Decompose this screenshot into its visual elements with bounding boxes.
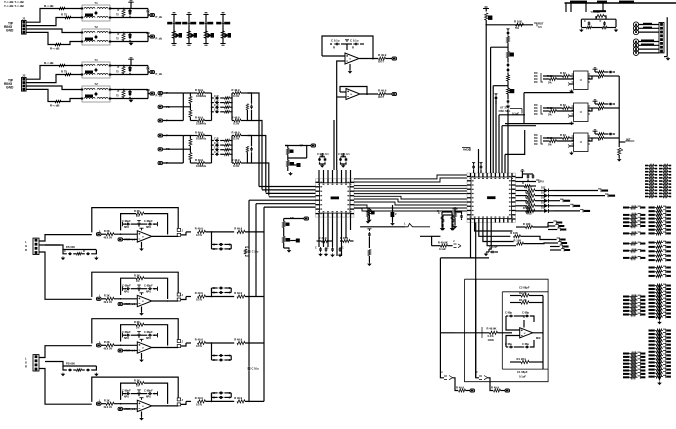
svg-text:R 49.9: R 49.9 <box>195 131 203 135</box>
svg-text:NPO: NPO <box>146 291 151 293</box>
termination row g1L9 <box>645 193 648 195</box>
wire <box>510 361 521 363</box>
capacitor CF4Ab <box>148 223 153 226</box>
termination row g6R9 <box>649 361 655 363</box>
termination row g4R1 <box>649 271 655 273</box>
svg-text:NPO: NPO <box>124 291 129 293</box>
op-amp U4C <box>137 342 152 353</box>
jumper JP3 <box>454 244 462 248</box>
ground <box>141 353 143 359</box>
wire <box>501 126 503 173</box>
capacitor CB9 <box>248 366 251 371</box>
diode D49 <box>371 211 375 214</box>
input resistor RI4B <box>106 297 114 300</box>
connector J5 <box>659 23 664 53</box>
power flag <box>137 285 141 289</box>
wire <box>354 187 467 189</box>
termination row g1L10 <box>645 196 648 198</box>
svg-text:C 68pF: C 68pF <box>122 330 131 334</box>
net TX1 out <box>148 9 150 16</box>
wire <box>516 190 528 192</box>
net AOUT1 <box>386 58 393 60</box>
wire <box>322 55 345 57</box>
termination row g3L2 <box>623 257 629 259</box>
svg-text:R 10K: R 10K <box>510 231 518 235</box>
svg-text:NPO: NPO <box>124 338 129 340</box>
svg-text:R 49.9: R 49.9 <box>232 116 240 120</box>
diode D48 <box>286 238 291 242</box>
termination row g1R1 <box>659 168 662 170</box>
capacitor CF4Cb <box>148 334 153 337</box>
svg-text:OUT: OUT <box>378 95 384 99</box>
termination row g2R4 <box>649 221 655 223</box>
power flag <box>593 68 598 69</box>
ground <box>485 253 487 254</box>
wire <box>255 204 257 297</box>
label pair 3 <box>199 22 204 25</box>
termination row g1R6 <box>659 183 662 185</box>
wire <box>163 136 184 150</box>
wire <box>516 200 528 202</box>
power flag <box>128 1 134 2</box>
wire <box>486 20 533 25</box>
svg-text:0.1uF: 0.1uF <box>519 375 526 379</box>
termination row g3L0 <box>623 243 629 245</box>
wire <box>101 298 106 300</box>
capacitor CR2 <box>250 147 253 152</box>
connector J4 <box>33 355 39 371</box>
wire <box>183 93 190 96</box>
termination row g2R0 <box>649 207 655 209</box>
power flag <box>341 154 345 155</box>
capacitor C82 <box>507 68 510 72</box>
wire <box>565 3 567 12</box>
ground <box>659 321 661 322</box>
power flag <box>137 220 141 224</box>
wire <box>188 15 190 44</box>
resistor R100 <box>521 294 529 297</box>
wire <box>354 202 467 205</box>
resistor R81 <box>516 23 524 26</box>
resistor R82 <box>507 37 510 43</box>
wire <box>639 52 659 54</box>
resistor RE3 <box>514 235 521 238</box>
resistor RB6 <box>563 137 570 140</box>
svg-text:R 49.9: R 49.9 <box>232 88 240 92</box>
wire <box>245 400 264 402</box>
termination row g6R7 <box>649 354 655 356</box>
svg-text:R 2K: R 2K <box>134 273 140 277</box>
resistor R11 <box>59 7 65 10</box>
wire <box>189 107 191 110</box>
capacitor CL24 <box>215 153 219 156</box>
wire <box>247 93 251 104</box>
connector J2 <box>22 78 27 92</box>
wire <box>570 3 572 12</box>
svg-text:R-< dB: R-< dB <box>50 47 60 51</box>
termination row g1L6 <box>645 183 648 185</box>
capacitor CT12 <box>129 35 132 40</box>
wire <box>506 346 508 348</box>
wire <box>588 107 598 109</box>
rc branch caps 4C <box>219 354 223 357</box>
wire <box>123 334 126 336</box>
wire <box>163 120 184 122</box>
svg-text:1%: 1% <box>136 281 139 283</box>
resistor R12 <box>55 43 61 46</box>
wire <box>588 137 598 139</box>
wire rail right <box>231 136 233 164</box>
net label REF4B <box>118 302 123 305</box>
termination row g2R3 <box>649 218 655 220</box>
resistor RS21 <box>198 134 205 137</box>
wire <box>432 235 441 237</box>
wire <box>350 170 352 179</box>
wire <box>152 405 178 407</box>
resistor R103 <box>521 360 529 363</box>
termination row g6L2 <box>623 359 629 361</box>
diode DD5 <box>544 209 549 213</box>
svg-text:R 49.9: R 49.9 <box>456 385 464 389</box>
resistor R105 <box>459 389 466 392</box>
svg-text:R 2K: R 2K <box>104 340 110 344</box>
power flag <box>593 100 598 101</box>
capacitor C80 <box>507 31 510 35</box>
termination row g5R1 <box>649 288 655 290</box>
wire <box>247 93 259 187</box>
wire <box>186 231 191 233</box>
resistor RC4 <box>221 31 224 38</box>
termination row g6R13 <box>649 376 655 378</box>
svg-text:P_db: P_db <box>156 72 163 76</box>
termination row g6R3 <box>649 340 655 342</box>
svg-text:R 49.9: R 49.9 <box>195 227 203 231</box>
capacitor CF4Da <box>126 392 131 395</box>
resistor RP6a <box>598 133 604 136</box>
wire <box>285 146 307 159</box>
wire <box>507 81 509 88</box>
wire <box>26 9 82 23</box>
analog section box <box>465 279 549 382</box>
svg-text:GND: GND <box>6 29 14 33</box>
wire <box>506 315 508 317</box>
svg-text:R 49.9: R 49.9 <box>232 158 240 162</box>
wire <box>163 135 184 137</box>
power <box>140 228 144 230</box>
net RX2 out <box>148 90 150 94</box>
wire <box>498 115 500 173</box>
capacitor CA9 <box>248 249 251 254</box>
svg-text:C 68pF: C 68pF <box>122 284 131 288</box>
svg-text:R 49.9: R 49.9 <box>319 236 327 240</box>
power flag <box>522 316 526 318</box>
ground <box>507 105 509 106</box>
termination row g5R0 <box>649 285 655 287</box>
capacitor CJ2 <box>86 253 90 256</box>
wire <box>602 3 604 12</box>
termination row g6L1 <box>623 356 629 358</box>
svg-text:R: R <box>621 148 623 152</box>
termination row g1L5 <box>645 180 648 182</box>
resistor RA4 <box>550 78 557 81</box>
capacitor C86 <box>451 216 454 221</box>
capacitor CF4Db <box>148 392 153 395</box>
svg-text:T2: T2 <box>94 82 98 86</box>
resistor RS13 <box>198 119 205 122</box>
wire <box>110 41 148 43</box>
net RX1 out <box>148 33 150 37</box>
capacitor CT21 <box>129 68 132 73</box>
resistor RP6b <box>598 137 604 140</box>
series resistor RO4C <box>198 341 206 344</box>
termination row g2L0 <box>623 207 629 209</box>
ground <box>130 99 132 100</box>
resistor R90 <box>596 15 604 18</box>
wire <box>205 162 212 164</box>
termination row g5L3 <box>623 306 629 308</box>
wire <box>110 32 148 34</box>
ground <box>141 307 143 313</box>
feedback resistor RF4D <box>121 383 136 400</box>
op-amp block 4A outer loop <box>92 208 178 233</box>
wire <box>318 170 320 179</box>
termination row g5L2 <box>623 303 629 305</box>
termination row g6R5 <box>649 347 655 349</box>
svg-text:R 220: R 220 <box>525 197 532 200</box>
wire <box>259 186 316 188</box>
svg-text:0.5: 0.5 <box>538 25 542 29</box>
capacitor CL22 <box>215 144 219 147</box>
wire <box>186 296 191 298</box>
transistor Q1 <box>297 163 301 167</box>
resistor RB4 <box>563 75 570 78</box>
svg-text:R: R <box>25 365 27 369</box>
wire <box>247 136 265 193</box>
power flag <box>137 332 141 336</box>
wire <box>543 78 550 80</box>
label pair 2 <box>182 22 187 25</box>
op-amp block 4C outer loop <box>92 319 178 344</box>
wire <box>490 47 492 173</box>
capacitor C101 <box>509 315 514 318</box>
termination row g6L0 <box>623 353 629 355</box>
svg-text:R: R <box>352 46 354 50</box>
wire <box>581 18 616 20</box>
wire <box>110 8 148 10</box>
diode D1 <box>175 33 180 39</box>
wire <box>181 343 186 346</box>
ground <box>171 43 176 45</box>
termination row g1L2 <box>645 171 648 173</box>
termination row g6L3 <box>623 363 629 365</box>
capacitor CJ1 <box>68 253 72 256</box>
svg-text:R-< dB: R-< dB <box>44 4 54 8</box>
wire <box>26 75 82 83</box>
rc branch caps 4B <box>219 287 223 290</box>
resistor R77 <box>524 185 530 188</box>
ground <box>220 43 225 45</box>
wire <box>110 65 148 67</box>
termination row g3R4 <box>649 259 655 261</box>
wire <box>485 25 487 173</box>
power flag chain 3 <box>203 13 208 15</box>
wire <box>39 235 92 241</box>
termination row g1R5 <box>659 180 662 182</box>
wire <box>523 93 525 124</box>
termination row g5R2 <box>649 292 655 294</box>
capacitor CR1 <box>250 104 253 109</box>
wire <box>354 205 467 208</box>
capacitor C75 <box>527 174 530 178</box>
wire <box>360 226 405 228</box>
capacitor CJ4 <box>86 369 90 372</box>
svg-text:D12: D12 <box>541 207 546 210</box>
termination row g5R9 <box>649 316 655 318</box>
wire <box>26 18 82 26</box>
wire <box>479 223 511 237</box>
svg-text:0.1%: 0.1% <box>488 334 495 338</box>
wire into box <box>440 332 455 334</box>
capacitor CF4Aa <box>126 223 131 226</box>
wire <box>570 115 574 117</box>
wire <box>505 123 574 125</box>
wire <box>163 92 184 94</box>
connector J3 <box>33 238 39 254</box>
svg-text:INT: INT <box>626 137 631 141</box>
feedback resistor RF4A <box>121 214 136 231</box>
svg-text:C 68pF: C 68pF <box>144 284 153 288</box>
wire <box>639 41 659 43</box>
termination row g6R10 <box>649 365 655 367</box>
svg-text:0.1uF: 0.1uF <box>439 247 446 251</box>
svg-text:R 220: R 220 <box>525 186 532 189</box>
diode D60 <box>391 212 395 217</box>
termination row g6L5 <box>623 370 629 372</box>
wire <box>506 316 520 330</box>
wire <box>340 91 346 93</box>
IC U1 CODEC <box>316 179 355 217</box>
svg-text:FB 600: FB 600 <box>66 361 75 365</box>
svg-text:R 75: R 75 <box>61 69 67 73</box>
transformer T21 <box>82 62 110 78</box>
wire <box>211 393 213 402</box>
capacitor C46 <box>339 247 342 252</box>
termination row g2R2 <box>649 214 655 216</box>
termination row g3R3 <box>649 255 655 257</box>
wire <box>505 130 525 154</box>
ground <box>62 373 64 374</box>
resistor RA6 <box>550 140 557 143</box>
wire <box>570 145 574 147</box>
svg-text:49.9 1%: 49.9 1% <box>104 348 112 351</box>
capacitor CL12 <box>215 101 219 104</box>
termination row g1R8 <box>659 190 662 192</box>
ground <box>571 90 573 91</box>
net label REF4D <box>118 407 123 410</box>
diode D47 <box>286 223 290 226</box>
resistor RP4b <box>598 75 604 78</box>
wire <box>101 233 106 235</box>
termination row g3R1 <box>649 246 655 248</box>
power flag <box>593 130 598 131</box>
resistor R23 <box>65 73 71 76</box>
wire <box>252 163 269 196</box>
testpoint circle 4 <box>633 39 638 44</box>
svg-text:R: R <box>333 46 335 50</box>
net IN1B <box>158 105 163 108</box>
wire <box>471 223 490 258</box>
svg-text:C: C <box>600 19 602 23</box>
svg-text:R 10K: R 10K <box>523 222 531 226</box>
svg-text:T1: T1 <box>94 1 98 5</box>
power flag <box>345 40 349 42</box>
termination row g6L4 <box>623 366 629 368</box>
resistor RS22 <box>234 134 241 137</box>
svg-text:P_db: P_db <box>156 15 163 19</box>
wire <box>123 350 138 352</box>
termination row g2R1 <box>649 210 655 212</box>
wire <box>585 3 587 12</box>
capacitor CB6 <box>608 133 612 136</box>
svg-text:R 49.9: R 49.9 <box>491 385 499 389</box>
capacitor C30 <box>334 43 340 46</box>
ground <box>571 152 573 153</box>
wire <box>327 217 329 247</box>
connector J1 <box>22 21 27 35</box>
wire <box>212 149 214 151</box>
wire <box>248 200 250 249</box>
resistor R84 <box>507 75 510 81</box>
capacitor CJ3 <box>68 369 72 372</box>
wire <box>354 199 467 202</box>
termination row g5R5 <box>649 302 655 304</box>
input resistor RI4C <box>106 344 114 347</box>
wire <box>337 96 346 98</box>
resistor R50 <box>368 250 371 256</box>
termination row g6R2 <box>649 337 655 339</box>
svg-text:G: G <box>25 244 27 248</box>
net TX2 out <box>148 66 150 73</box>
wire <box>248 371 250 402</box>
svg-text:R 33: R 33 <box>560 103 566 107</box>
svg-text:T-< dB T-< dB: T-< dB T-< dB <box>4 4 25 8</box>
termination row g1R0 <box>659 165 662 167</box>
svg-text:R-< dB: R-< dB <box>44 61 54 65</box>
jumper JP5 <box>479 376 488 380</box>
IC U4 <box>574 71 588 90</box>
wire inverting input <box>337 61 345 110</box>
termination row g1L7 <box>645 186 648 188</box>
svg-text:R 49.9K: R 49.9K <box>487 327 497 331</box>
svg-text:49.9 1%: 49.9 1% <box>104 301 112 304</box>
wire <box>336 110 338 170</box>
wire <box>354 178 467 182</box>
termination row g5R8 <box>649 313 655 315</box>
wire <box>341 162 347 164</box>
wire <box>205 120 212 122</box>
ground <box>288 249 290 250</box>
resistor RT12 <box>122 34 125 41</box>
resistor RS12 <box>234 92 241 95</box>
svg-text:1%: 1% <box>136 327 139 329</box>
wire rail right <box>231 93 233 121</box>
power flag chain 1 <box>171 13 176 15</box>
wire <box>245 231 264 233</box>
wire <box>181 232 186 235</box>
wire <box>283 243 285 249</box>
wire <box>453 378 459 391</box>
wire <box>639 31 659 33</box>
